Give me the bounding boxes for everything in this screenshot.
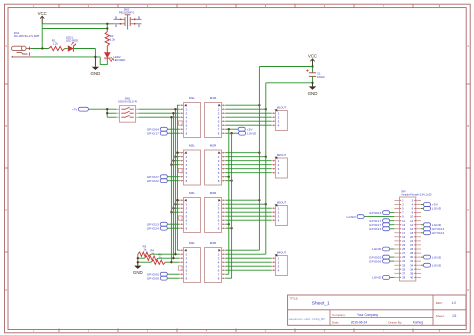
- node branch junction M3L pin1: [176, 199, 178, 201]
- node branch junction M3L pin3: [172, 207, 174, 209]
- wire M3R pin3 to M3OUT: [225, 207, 271, 209]
- wire VCC feed to driver headers: [259, 66, 312, 68]
- net flag LGND at RPI pin 9: [346, 215, 364, 219]
- switch SW1 KDG/S-03LG-R: [116, 97, 138, 123]
- svg-text:M2L: M2L: [189, 144, 195, 148]
- wire LGND to RPI pin 25: [390, 248, 395, 250]
- svg-text:M1R: M1R: [210, 96, 217, 100]
- svg-text:1.0: 1.0: [452, 301, 457, 305]
- jumper box at M1L pin 5: [178, 121, 182, 125]
- wire M4R pin3 to M4OUT: [225, 257, 271, 259]
- wire M4L pin3 branch: [173, 257, 179, 259]
- wire M3R pin2 to GND rail: [225, 203, 265, 205]
- net flag GPIO24 at RPI pin 18: [424, 231, 445, 235]
- svg-text:Date:: Date:: [332, 320, 339, 324]
- wire M3R pin1 to VCC rail: [225, 199, 259, 201]
- svg-text:M2OUT: M2OUT: [277, 153, 287, 157]
- wire +5V rail vertical: [228, 129, 230, 274]
- wire M3R pin4 to M3OUT: [225, 211, 271, 213]
- node DC+ / VCC junction: [41, 47, 43, 49]
- svg-text:GPIO24: GPIO24: [432, 231, 444, 235]
- svg-text:LED RED: LED RED: [113, 58, 125, 62]
- node branch junction M2L pin3: [172, 160, 174, 162]
- svg-text:GPIO06: GPIO06: [369, 259, 381, 263]
- net flag GPIO06 at RPI pin 31: [369, 259, 390, 263]
- wire LGND rail vertical: [231, 133, 233, 278]
- svg-text:M2R: M2R: [210, 144, 217, 148]
- node branch junction M3L pin4: [170, 211, 172, 213]
- LED LED1 LED RED: [66, 35, 78, 51]
- connector DC1 DC-005-5A-2.5-SMT barrel jack: [11, 31, 40, 58]
- svg-text:+7V: +7V: [72, 107, 77, 111]
- svg-text:Company:: Company:: [332, 313, 346, 317]
- wire GPIO06 to M4L pin8: [167, 277, 179, 279]
- switch SW2 PB21E09471: [114, 7, 142, 29]
- node pin1 net row2: [176, 152, 178, 154]
- svg-text:LGND: LGND: [346, 215, 356, 219]
- connector header M1R: [205, 96, 226, 137]
- wire DC return rail: [31, 56, 100, 58]
- capacitor C1 100uF: [306, 69, 325, 79]
- connector M4OUT: [272, 251, 288, 276]
- wire M2R pin3 to M2OUT: [225, 160, 271, 162]
- node line2 tap row1: [172, 112, 174, 114]
- wire M4R pin1 to VCC rail: [225, 249, 259, 251]
- resistor R4: [145, 248, 158, 260]
- wire M4R pin6 to M4OUT: [225, 269, 271, 271]
- svg-text:LGND: LGND: [372, 247, 382, 251]
- wire LGND to RPI pin 39: [390, 276, 395, 278]
- wire GPIO24 to M3L pin8: [167, 227, 179, 229]
- svg-text:100uF: 100uF: [317, 75, 325, 79]
- net flag LGND at RPI pin 14: [424, 223, 442, 227]
- wire VCC stem down to DC jack node: [41, 24, 43, 49]
- svg-text:M4OUT: M4OUT: [277, 251, 287, 255]
- wire VCC rail to SW2: [42, 23, 113, 25]
- node branch junction M2L pin4: [170, 164, 172, 166]
- node +5V rail top junction: [228, 128, 230, 130]
- wire M2R pin6 to M2OUT: [225, 172, 271, 174]
- svg-text:GND: GND: [133, 270, 143, 275]
- power flag VCC (input): [38, 11, 47, 24]
- jumper box at M3L pin 5: [178, 216, 182, 220]
- wire M4L pin2 branch: [175, 253, 179, 255]
- connector header M3R: [205, 191, 226, 232]
- wire RPI pin 16 to GPIO23: [421, 228, 424, 230]
- LED LED2 LED RED: [104, 46, 125, 62]
- svg-text:PB21E09471: PB21E09471: [119, 10, 135, 14]
- wire LED1 to return: [74, 48, 96, 50]
- node pin1 net row3: [176, 199, 178, 201]
- wire GND distribution vertical: [265, 83, 267, 254]
- wire M2R pin8 to LGND rail: [225, 180, 231, 182]
- svg-text:GPIO17: GPIO17: [147, 131, 159, 135]
- node +7V junction 2: [106, 112, 108, 114]
- net flag GPIO05 at M4L: [147, 272, 168, 276]
- wire RPI pin 34 to LGND: [421, 264, 424, 266]
- connector M3OUT: [272, 201, 288, 226]
- svg-text:TITLE:: TITLE:: [290, 297, 299, 301]
- node R4 GND junction: [137, 257, 139, 259]
- svg-text:D: D: [467, 288, 469, 292]
- wire R1 to LED1: [65, 48, 68, 50]
- connector header M2L: [180, 144, 201, 185]
- wire M2R pin5 to M2OUT: [225, 168, 271, 170]
- jumper box at M2L pin 5: [178, 168, 182, 172]
- node GND node: [311, 82, 313, 84]
- node R5 junction: [170, 261, 172, 263]
- wire M1R pin4 to M1OUT: [225, 116, 271, 118]
- node R5 GND junction: [137, 261, 139, 263]
- svg-text:M4L: M4L: [189, 241, 195, 245]
- wire M1R pin6 to M1OUT: [225, 124, 271, 126]
- net flag GPIO06 at M4L: [147, 276, 168, 280]
- svg-text:LGND: LGND: [372, 276, 382, 280]
- wire +7V to SW1 pin3: [107, 116, 116, 118]
- connector header M4L: [180, 241, 201, 282]
- resistor R1: [49, 46, 65, 50]
- wire M3L pin1 branch: [177, 199, 179, 201]
- wire GPIO05 to M4L pin7: [167, 273, 179, 275]
- wire M3R pin5 to M3OUT: [225, 215, 271, 217]
- wire M1L pin1 shared vertical: [177, 105, 179, 250]
- svg-text:Korhog: Korhog: [413, 320, 424, 324]
- svg-text:1/1: 1/1: [452, 314, 457, 318]
- wire pull-down GND vertical: [137, 254, 139, 262]
- node +5V rail junction row2: [228, 176, 230, 178]
- wire M3L pin2 branch: [175, 203, 179, 205]
- svg-text:M3L: M3L: [189, 191, 195, 195]
- svg-text:1.2k: 1.2k: [53, 42, 59, 46]
- node GND rail junction row3: [265, 203, 267, 205]
- svg-text:Sheet_1: Sheet_1: [312, 301, 330, 307]
- wire +7V to SW1 pin1: [88, 108, 116, 110]
- node VCC rail junction row3: [258, 199, 260, 201]
- wire drop to R2: [106, 24, 108, 32]
- wire DC+ to R1: [31, 48, 49, 50]
- svg-text:A: A: [5, 44, 7, 48]
- net flag GPIO24 at M3L: [147, 226, 168, 230]
- connector RPI Header-Female-2.54_2x20: [394, 191, 432, 281]
- wire M1R pin2 to GND rail: [225, 108, 265, 110]
- wire R4 left lead: [138, 257, 145, 259]
- ground GND (logic): [308, 83, 318, 96]
- svg-text:C: C: [5, 208, 7, 212]
- svg-text:M3OUT: M3OUT: [277, 201, 287, 205]
- node return / GND junction: [94, 56, 96, 58]
- wire GPIO04 to RPI pin 7: [390, 212, 395, 214]
- wire +7V to SW1 pin2: [107, 112, 116, 114]
- wire GPIO27 to RPI pin 13: [390, 224, 395, 226]
- wire M4R pin2 to GND rail: [225, 253, 265, 255]
- node VCC node: [311, 65, 313, 67]
- connector header M3L: [180, 191, 201, 232]
- wire M2L pin4 branch: [171, 164, 179, 166]
- wire M3L pin3 branch: [173, 207, 179, 209]
- wire M2L pin1 branch: [177, 152, 179, 154]
- svg-text:C: C: [467, 208, 469, 212]
- connector M2OUT: [272, 153, 288, 178]
- wire SW1 out3 to M1L pin4: [139, 116, 180, 118]
- wire M3R pin7 to +5V rail: [225, 223, 228, 225]
- wire VCC distribution vertical: [258, 67, 260, 251]
- wire SW1 out1 to M1L pin2: [139, 108, 180, 110]
- svg-text:B: B: [5, 124, 7, 128]
- wire M2R pin2 to GND rail: [225, 156, 265, 158]
- node GND rail junction row2: [265, 156, 267, 158]
- node +5V rail junction row3: [228, 223, 230, 225]
- wire M4R pin8 elbow: [225, 277, 231, 279]
- net flag GPIO27 at M2L: [147, 175, 168, 179]
- wire M3L pin4 branch: [171, 211, 179, 213]
- net flag LGND at RPI pin 34: [424, 263, 442, 267]
- svg-text:M3R: M3R: [210, 191, 217, 195]
- node LGND rail junction row2: [230, 180, 232, 182]
- wire SW1 line1 vertical: [174, 109, 176, 254]
- node +7V junction 1: [106, 108, 108, 110]
- connector header M1L: [180, 96, 201, 137]
- svg-text:LGND: LGND: [432, 207, 442, 211]
- net flag LGND at RPI pin 25: [372, 247, 390, 251]
- node LGND rail junction row3: [230, 227, 232, 229]
- wire GND feed to driver headers: [266, 82, 313, 84]
- node VCC-SW2-R2 junction: [106, 23, 108, 25]
- node VCC rail junction row2: [258, 152, 260, 154]
- net flag +5V at RPI pin 4: [424, 203, 439, 207]
- svg-text:GND: GND: [91, 71, 101, 76]
- wire M1R pin1 to VCC rail: [225, 104, 259, 106]
- net flag LGND at RPI pin 30: [424, 255, 442, 259]
- wire GPIO22 to RPI pin 15: [390, 228, 395, 230]
- svg-text:KDG/S-03LG-R: KDG/S-03LG-R: [118, 100, 137, 104]
- wire GPIO05 to RPI pin 29: [390, 256, 395, 258]
- wire VCC rail lower branch: [42, 28, 107, 30]
- net flag GPIO05 at RPI pin 29: [369, 255, 390, 259]
- node GND rail junction row1: [265, 108, 267, 110]
- net flag GPIO04 at M1L: [147, 127, 168, 131]
- svg-text:Header-Female-2.54_2x20: Header-Female-2.54_2x20: [402, 193, 432, 196]
- wire M2L pin2 branch: [175, 156, 179, 158]
- wire C1- to GND: [312, 76, 314, 83]
- wire LGND to RPI pin 9: [364, 216, 394, 218]
- net flag GPIO27 at RPI pin 13: [369, 223, 390, 227]
- connector M1OUT: [272, 106, 288, 131]
- wire M1R pin8 to LGND flag: [225, 132, 238, 134]
- svg-text:GPIO22: GPIO22: [147, 179, 159, 183]
- wire M2L pin3 branch: [173, 160, 179, 162]
- node branch junction M3L pin2: [174, 203, 176, 205]
- net flag LGND at RPI pin 6: [424, 207, 442, 211]
- wire SW1 out2 to M1L pin3: [139, 112, 180, 114]
- wire M1R pin7 to +5V flag: [225, 128, 238, 130]
- node R4 junction: [172, 257, 174, 259]
- wire GPIO27 to M2L pin7: [167, 176, 179, 178]
- wire +7V distribution: [106, 109, 108, 117]
- wire M2R pin1 to VCC rail: [225, 152, 259, 154]
- wire RPI pin 4 to +5V: [421, 204, 424, 206]
- svg-text:easyeda.com - editor - Korhog_: easyeda.com - editor - Korhog_RPI: [289, 318, 325, 321]
- resistor R2: [105, 32, 116, 47]
- node LGND rail top junction: [230, 132, 232, 134]
- wire R3 to line1: [151, 253, 176, 255]
- svg-text:GPIO24: GPIO24: [147, 226, 159, 230]
- net flag GPIO22 at M2L: [147, 179, 168, 183]
- wire R5 left lead: [138, 261, 151, 263]
- svg-text:DC-005-5A-2.5-SMT: DC-005-5A-2.5-SMT: [14, 34, 40, 38]
- wire M1R pin5 to M1OUT: [225, 120, 271, 122]
- net flag LGND at M1R: [239, 131, 257, 135]
- node branch junction M2L pin2: [174, 156, 176, 158]
- svg-text:2019-06-24: 2019-06-24: [351, 320, 368, 324]
- svg-text:M1L: M1L: [189, 96, 195, 100]
- svg-text:REV:: REV:: [436, 301, 443, 305]
- wire M4R pin5 to M4OUT: [225, 265, 271, 267]
- wire M4L pin4 branch: [171, 261, 179, 263]
- node branch junction M2L pin1: [176, 152, 178, 154]
- wire M3R pin6 to M3OUT: [225, 219, 271, 221]
- svg-text:VCC: VCC: [38, 11, 47, 16]
- svg-text:GND: GND: [308, 91, 318, 96]
- net flag LGND at RPI pin 39: [372, 276, 390, 280]
- wire M4R pin7 elbow: [225, 273, 228, 275]
- wire LED2 return elbow: [100, 57, 107, 65]
- net flag GPIO23 at RPI pin 16: [424, 227, 445, 231]
- svg-text:M4R: M4R: [210, 241, 217, 245]
- svg-text:1.2k: 1.2k: [110, 38, 116, 42]
- wire M4R pin4 to M4OUT: [225, 261, 271, 263]
- wire drop to return rail: [94, 49, 96, 57]
- node VCC rail junction row1: [258, 104, 260, 106]
- power flag VCC (logic): [308, 54, 317, 67]
- jumper box at M4L pin 5: [178, 266, 182, 270]
- node line3 tap row1: [170, 116, 172, 118]
- net flag GPIO23 at M3L: [147, 222, 168, 226]
- svg-text:VCC: VCC: [308, 54, 317, 59]
- svg-text:GPIO22: GPIO22: [369, 227, 381, 231]
- resistor R3: [138, 244, 151, 256]
- wire R4 to line2: [158, 257, 174, 259]
- svg-text:LGND: LGND: [432, 255, 442, 259]
- wire M4L pin1 branch: [177, 249, 179, 251]
- wire M2R pin7 to +5V rail: [225, 176, 228, 178]
- wire GPIO17 to RPI pin 11: [390, 220, 395, 222]
- wire GPIO23 to M3L pin7: [167, 223, 179, 225]
- connector header M2R: [205, 144, 226, 185]
- net flag GPIO22 at RPI pin 15: [369, 227, 390, 231]
- node VCC lower branch junction: [106, 27, 108, 29]
- wire RPI pin 30 to LGND: [421, 256, 424, 258]
- wire M3R pin8 to LGND rail: [225, 227, 231, 229]
- net flag GPIO04 at RPI pin 7: [369, 211, 390, 215]
- wire RPI pin 18 to GPIO24: [421, 232, 424, 234]
- svg-text:D: D: [5, 288, 7, 292]
- svg-text:GPIO04: GPIO04: [369, 211, 381, 215]
- wire M1R pin3 to M1OUT: [225, 112, 271, 114]
- resistor R5: [151, 252, 165, 264]
- wire M2R pin4 to M2OUT: [225, 164, 271, 166]
- svg-text:LGND: LGND: [432, 263, 442, 267]
- ground GND (pull-downs): [133, 262, 143, 275]
- svg-text:M1OUT: M1OUT: [277, 106, 287, 110]
- net flag +7V: [72, 107, 88, 111]
- wire GPIO04 to M1L pin7: [167, 128, 179, 130]
- net flag GPIO17 at M1L: [147, 131, 168, 135]
- connector header M4R: [205, 241, 226, 282]
- wire RPI pin 6 to LGND: [421, 208, 424, 210]
- net flag +5V at M1R: [238, 127, 253, 131]
- svg-text:Sheet:: Sheet:: [436, 314, 445, 318]
- svg-text:LED RED: LED RED: [66, 39, 78, 43]
- svg-text:LGND: LGND: [247, 131, 257, 135]
- svg-text:GPIO06: GPIO06: [147, 276, 159, 280]
- svg-text:Drawn By:: Drawn By:: [388, 320, 402, 324]
- wire SW1 line2 vertical: [172, 113, 174, 258]
- wire GPIO17 to M1L pin8: [167, 132, 179, 134]
- wire SW1 line3 vertical: [170, 117, 172, 262]
- wire GPIO06 to RPI pin 31: [390, 260, 395, 262]
- svg-text:Your Company: Your Company: [357, 313, 378, 317]
- ground GND (input): [91, 57, 101, 76]
- node line1 tap row1: [174, 108, 176, 110]
- wire RPI pin 14 to LGND: [421, 224, 424, 226]
- net flag GPIO17 at RPI pin 11: [369, 219, 390, 223]
- wire GPIO22 to M2L pin8: [167, 180, 179, 182]
- svg-text:A: A: [467, 44, 469, 48]
- wire R5 to line3: [165, 261, 171, 263]
- svg-text:B: B: [467, 124, 469, 128]
- node R3 junction: [174, 253, 176, 255]
- wire VCC to C1+: [312, 67, 314, 73]
